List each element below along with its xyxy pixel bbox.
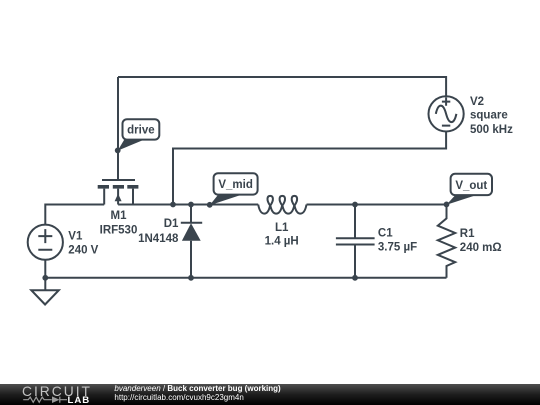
svg-text:drive: drive bbox=[127, 125, 155, 137]
wire top rail (drive to V2 plus) bbox=[118, 77, 446, 97]
junction V2 return / source node bbox=[170, 202, 176, 208]
ground bbox=[31, 290, 59, 304]
junction V1 bottom bbox=[42, 275, 48, 281]
junction C1 bottom bbox=[352, 275, 358, 281]
voltage source V1 bbox=[28, 225, 63, 260]
wire L1 to C1 to R1 bbox=[307, 204, 447, 206]
footer bar bbox=[0, 384, 540, 405]
capacitor C1 bbox=[336, 205, 375, 278]
svg-text:bvanderveen / Buck converter b: bvanderveen / Buck converter bug (workin… bbox=[114, 384, 281, 393]
wire V1 minus to ground bbox=[44, 260, 46, 291]
svg-text:M1: M1 bbox=[111, 210, 128, 222]
wire source rail to L1 bbox=[118, 204, 258, 206]
svg-text:D1: D1 bbox=[164, 218, 179, 230]
junction C1 top bbox=[352, 202, 358, 208]
svg-text:IRF530: IRF530 bbox=[100, 225, 138, 237]
svg-text:3.75 µF: 3.75 µF bbox=[378, 241, 417, 253]
node label V_mid bbox=[207, 173, 258, 208]
svg-text:square: square bbox=[470, 110, 508, 122]
svg-text:V1: V1 bbox=[68, 231, 83, 243]
voltage source V2 bbox=[429, 96, 464, 131]
svg-text:V2: V2 bbox=[470, 96, 484, 108]
wire drain to V1 plus bbox=[45, 205, 104, 226]
svg-text:500 kHz: 500 kHz bbox=[470, 124, 513, 136]
wire bottom rail bbox=[45, 277, 446, 279]
svg-text:C1: C1 bbox=[378, 227, 393, 239]
svg-text:1N4148: 1N4148 bbox=[138, 233, 179, 245]
resistor R1 bbox=[438, 205, 455, 278]
transistor M1 (NMOS) bbox=[98, 180, 139, 205]
svg-text:V_mid: V_mid bbox=[218, 179, 253, 191]
svg-text:LAB: LAB bbox=[68, 395, 91, 405]
svg-text:240 V: 240 V bbox=[68, 244, 98, 256]
svg-text:1.4 µH: 1.4 µH bbox=[265, 236, 299, 248]
svg-text:L1: L1 bbox=[275, 222, 289, 234]
svg-text:V_out: V_out bbox=[455, 180, 487, 192]
node label V_out bbox=[444, 174, 492, 208]
inductor L1 bbox=[258, 196, 306, 214]
diode D1 bbox=[181, 205, 202, 278]
node label drive bbox=[115, 119, 160, 153]
junction D1 top bbox=[188, 202, 194, 208]
logo resistor-diode glyph bbox=[23, 397, 67, 403]
junction D1 bottom bbox=[188, 275, 194, 281]
wire gate (drive net, vertical) bbox=[117, 77, 119, 180]
svg-text:240 mΩ: 240 mΩ bbox=[460, 242, 502, 254]
wire V2 minus return to source node bbox=[173, 132, 446, 205]
svg-text:R1: R1 bbox=[460, 228, 475, 240]
svg-text:http://circuitlab.com/cvuxh9c2: http://circuitlab.com/cvuxh9c23gm4n bbox=[114, 393, 243, 402]
